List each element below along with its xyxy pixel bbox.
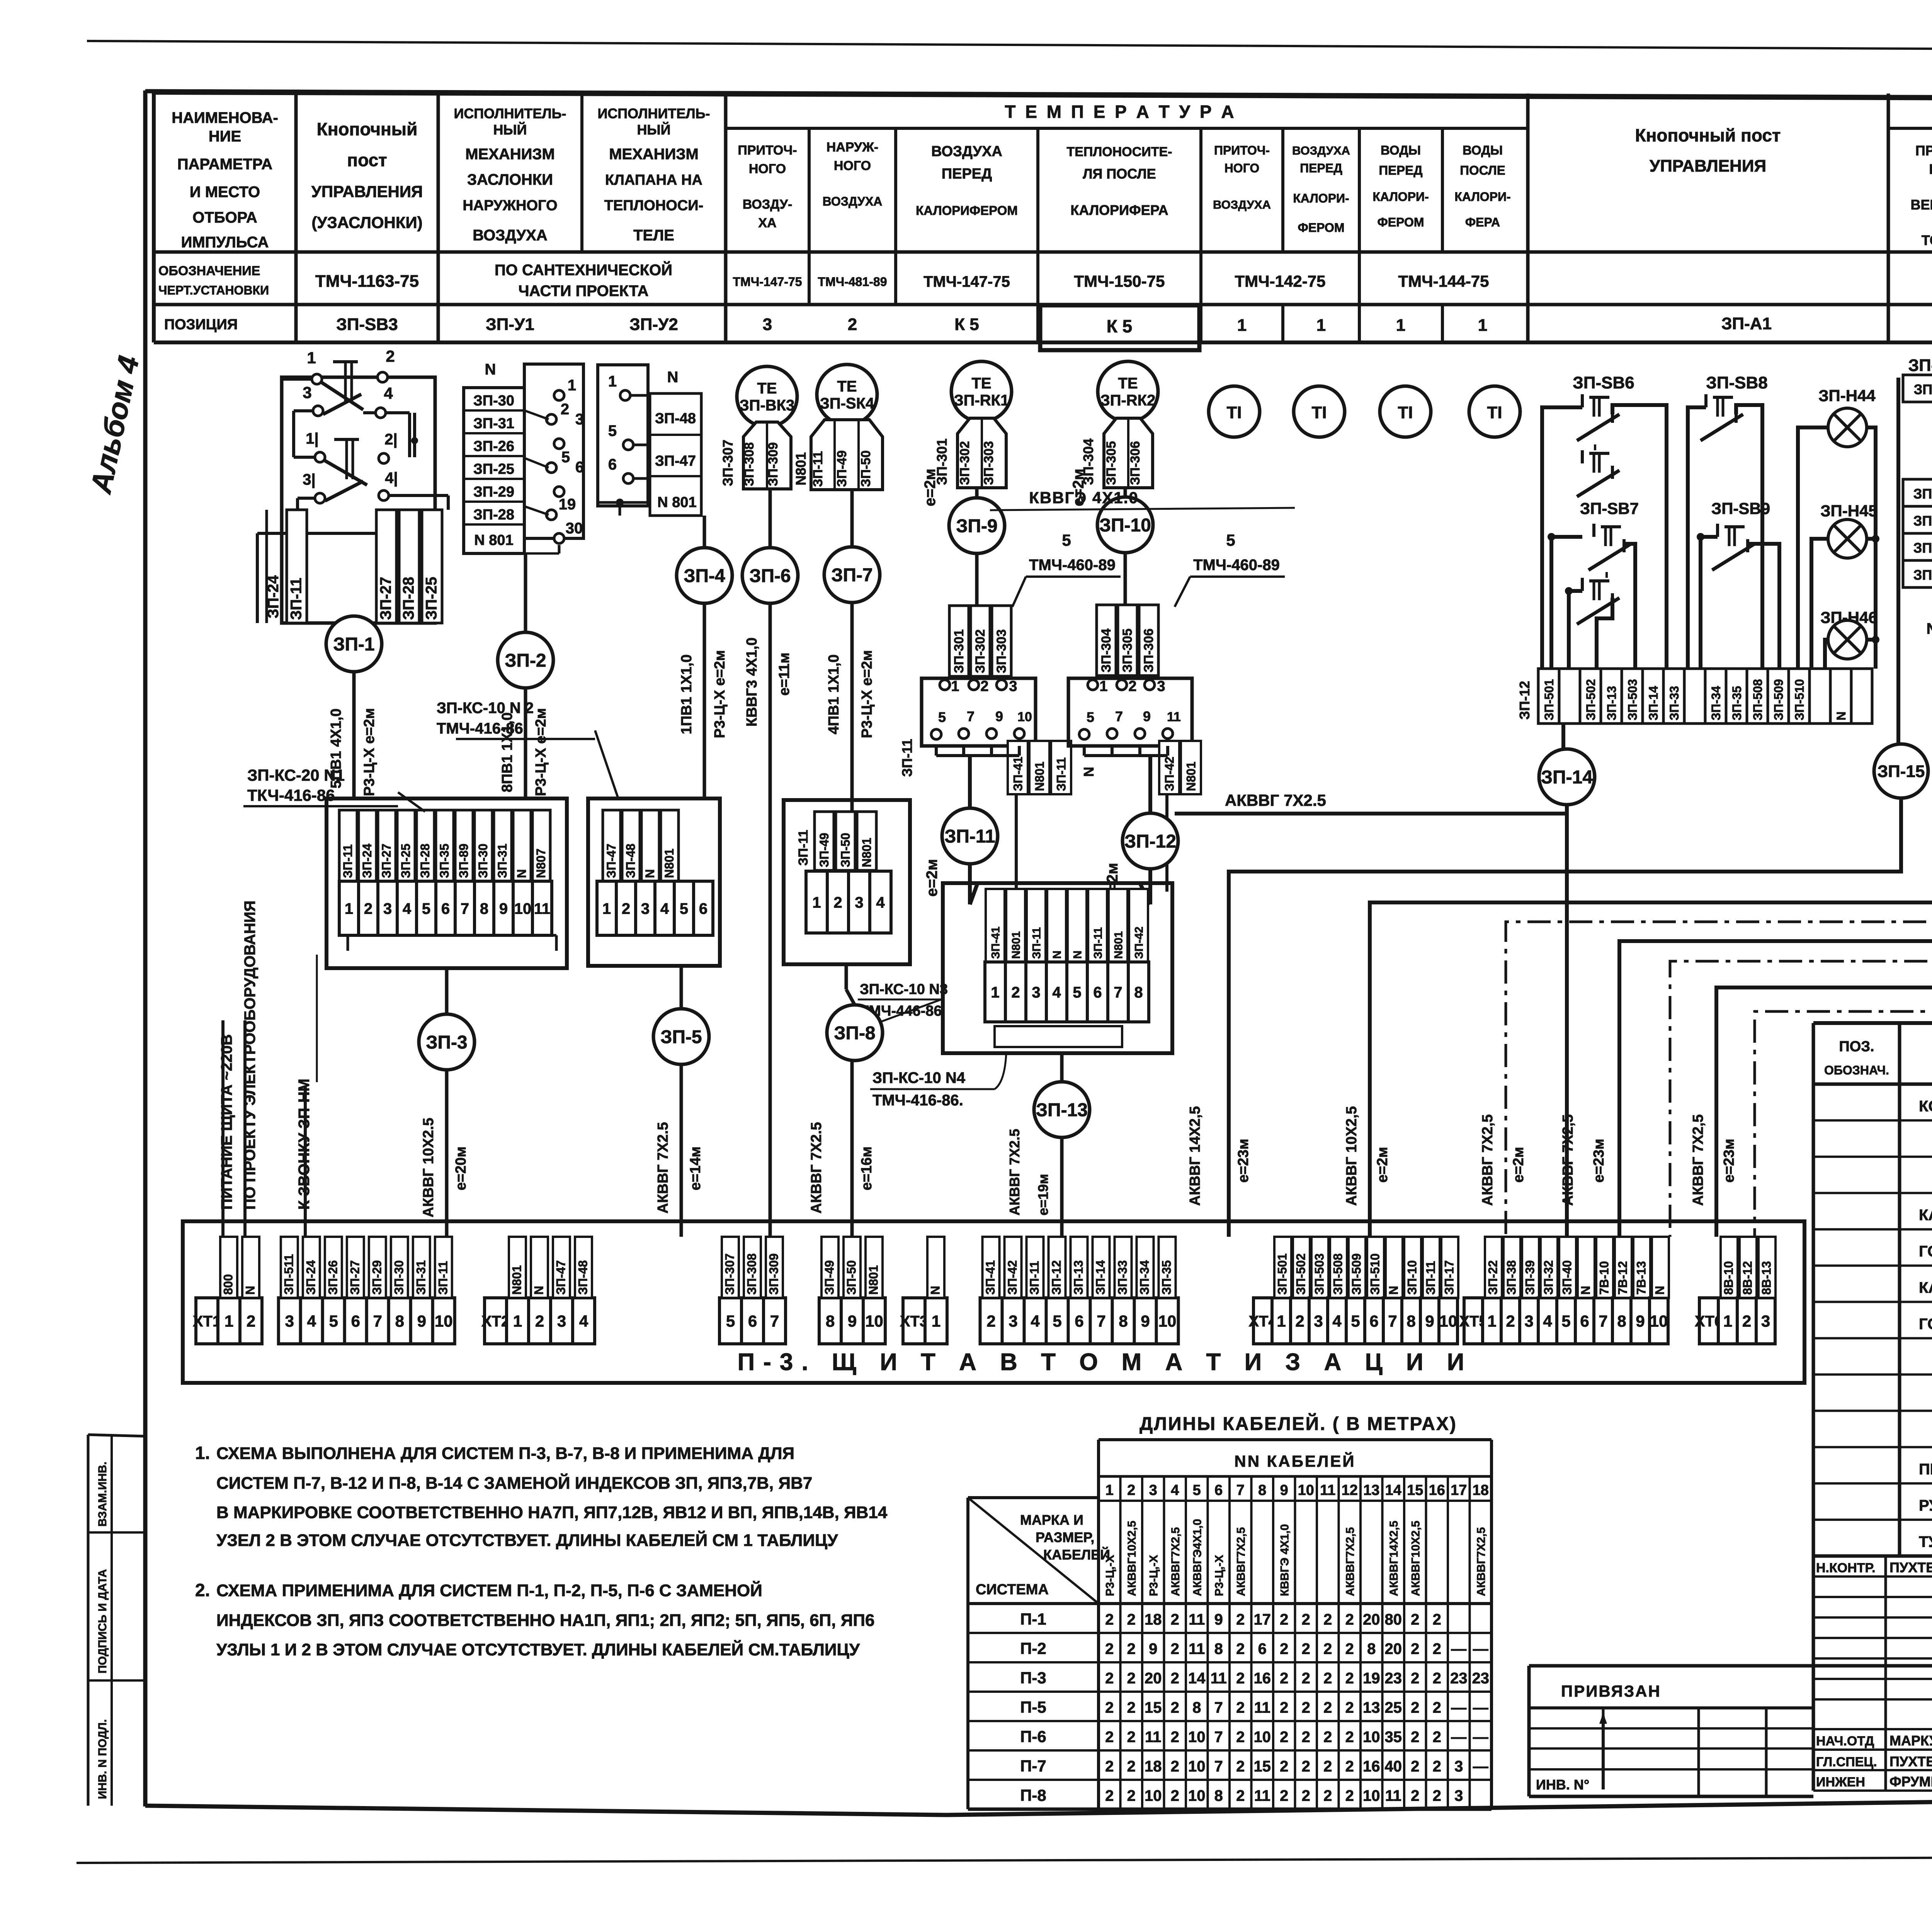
svg-text:2: 2 xyxy=(1742,1312,1751,1330)
svg-text:ВЗАМ.ИНВ.: ВЗАМ.ИНВ. xyxy=(96,1462,109,1527)
svg-text:1: 1 xyxy=(602,900,611,917)
svg-text:Р3-Ц-Х e=2м: Р3-Ц-Х e=2м xyxy=(533,708,549,796)
svg-text:АКВВГЭ4Х1,0: АКВВГЭ4Х1,0 xyxy=(1191,1519,1204,1596)
svg-text:15: 15 xyxy=(1407,1482,1423,1498)
svg-text:3: 3 xyxy=(1761,1312,1770,1330)
svg-text:ТМЧ-147-75: ТМЧ-147-75 xyxy=(923,273,1010,290)
svg-text:ЗП-RК1: ЗП-RК1 xyxy=(954,392,1009,409)
svg-text:ЗП-38: ЗП-38 xyxy=(1913,540,1932,556)
svg-text:2: 2 xyxy=(1171,1758,1179,1775)
КС-10 N4 stub rect xyxy=(995,1026,1122,1047)
svg-text:ВОДЫ: ВОДЫ xyxy=(1463,143,1503,157)
svg-text:1: 1 xyxy=(568,377,576,394)
svg-text:7В-10: 7В-10 xyxy=(1597,1261,1611,1295)
svg-text:2: 2 xyxy=(386,347,395,365)
svg-text:2: 2 xyxy=(1345,1670,1354,1687)
svg-text:e=2м: e=2м xyxy=(922,469,939,506)
svg-text:ЗП-27: ЗП-27 xyxy=(377,577,394,620)
svg-text:13: 13 xyxy=(1363,1482,1379,1498)
svg-text:АКВВГ 10Х2,5: АКВВГ 10Х2,5 xyxy=(1344,1106,1360,1206)
svg-text:N801: N801 xyxy=(793,452,809,485)
svg-text:Р3-Ц,-Х: Р3-Ц,-Х xyxy=(1213,1555,1226,1596)
svg-text:4: 4 xyxy=(1031,1312,1040,1330)
svg-text:ЗП-511: ЗП-511 xyxy=(282,1254,296,1295)
svg-text:ЗП-33: ЗП-33 xyxy=(1667,686,1681,720)
ЗП-SВ3 internal junction wires xyxy=(296,498,299,533)
К5 heavy cell box xyxy=(1040,305,1199,350)
svg-text:11: 11 xyxy=(1211,1670,1227,1687)
wire ЗП-17 down-left staircase xyxy=(1619,657,1932,1237)
svg-text:10: 10 xyxy=(1158,1312,1177,1330)
svg-text:17: 17 xyxy=(1451,1482,1467,1498)
svg-text:ЧАСТИ ПРОЕКТА: ЧАСТИ ПРОЕКТА xyxy=(518,283,648,300)
svg-text:2: 2 xyxy=(1411,1611,1419,1628)
svg-text:3: 3 xyxy=(763,315,772,334)
svg-text:ЗП-ВК3: ЗП-ВК3 xyxy=(740,397,795,414)
svg-text:10: 10 xyxy=(1363,1788,1380,1805)
svg-text:КВВГЭ 4Х1,0: КВВГЭ 4Х1,0 xyxy=(1279,1524,1291,1596)
svg-text:3: 3 xyxy=(303,383,311,402)
tag strip under SB block xyxy=(1538,669,1559,724)
svg-text:16: 16 xyxy=(1363,1758,1380,1775)
svg-text:ЗП-35: ЗП-35 xyxy=(1730,686,1744,720)
svg-text:2: 2 xyxy=(1302,1758,1310,1775)
svg-text:3: 3 xyxy=(1009,1312,1017,1330)
svg-text:1: 1 xyxy=(1396,316,1405,335)
TI instrument circles xyxy=(1209,386,1260,437)
svg-text:4: 4 xyxy=(1171,1482,1179,1498)
svg-text:4|: 4| xyxy=(385,470,398,487)
svg-text:ПОСЛЕ: ПОСЛЕ xyxy=(1460,163,1505,177)
svg-text:КАБЕЛЬ КОНТРОЛЬНЫЙ С МЕДНЫМИ: КАБЕЛЬ КОНТРОЛЬНЫЙ С МЕДНЫМИ ЖИЛАМИ xyxy=(1919,1206,1932,1224)
svg-text:СХЕМА ВЫПОЛНЕНА ДЛЯ СИСТЕМ: СХЕМА ВЫПОЛНЕНА ДЛЯ СИСТЕМ П-3, В-7, В-8… xyxy=(216,1444,794,1463)
svg-text:2: 2 xyxy=(1280,1758,1288,1775)
svg-text:2: 2 xyxy=(1105,1611,1114,1628)
svg-text:N: N xyxy=(643,869,657,878)
svg-text:ГОСТ1508-78*Е: ГОСТ1508-78*Е xyxy=(1919,1243,1932,1260)
svg-text:23: 23 xyxy=(1450,1670,1468,1687)
svg-text:ФЕРОМ: ФЕРОМ xyxy=(1298,221,1344,235)
svg-text:18: 18 xyxy=(1473,1482,1489,1498)
svg-text:НОГО: НОГО xyxy=(834,158,871,173)
svg-text:ЗП-307: ЗП-307 xyxy=(723,1253,737,1295)
svg-text:ЗП-5: ЗП-5 xyxy=(660,1027,702,1047)
svg-text:ЗП-309: ЗП-309 xyxy=(767,1253,781,1295)
wire ЗП-18 staircase xyxy=(1716,657,1932,1237)
svg-text:4: 4 xyxy=(307,1312,316,1330)
svg-text:ЗП-25: ЗП-25 xyxy=(423,577,440,620)
svg-text:ЗП-50: ЗП-50 xyxy=(838,833,852,867)
svg-text:—: — xyxy=(1473,1699,1488,1716)
tag cell ЗП-28 xyxy=(399,510,419,623)
svg-text:6: 6 xyxy=(1580,1312,1589,1330)
svg-text:ЗП-14: ЗП-14 xyxy=(1541,767,1593,788)
switch ЗП-SВ9 contact xyxy=(1716,524,1719,537)
svg-text:e=2м: e=2м xyxy=(923,859,940,897)
svg-text:2: 2 xyxy=(1171,1670,1179,1687)
svg-text:ЗП-308: ЗП-308 xyxy=(745,1253,759,1295)
svg-text:2: 2 xyxy=(561,401,569,418)
svg-text:ЗП-47: ЗП-47 xyxy=(554,1260,568,1295)
svg-text:В МАРКИРОВКЕ СООТВЕТСТВЕННО Н: В МАРКИРОВКЕ СООТВЕТСТВЕННО НА7П, ЯП7,12… xyxy=(216,1503,888,1522)
svg-text:НЫЙ: НЫЙ xyxy=(637,121,670,138)
svg-text:К 5: К 5 xyxy=(954,315,979,334)
svg-text:ЗП-10: ЗП-10 xyxy=(1908,356,1932,375)
svg-text:Р3-Ц-Х e=2м: Р3-Ц-Х e=2м xyxy=(712,650,728,738)
svg-text:1ПВ1 1Х1,0: 1ПВ1 1Х1,0 xyxy=(679,654,695,734)
svg-text:2: 2 xyxy=(1345,1788,1354,1805)
svg-text:ПЕРЕД: ПЕРЕД xyxy=(1300,161,1342,175)
svg-text:e=2м: e=2м xyxy=(1374,1147,1391,1183)
svg-text:8: 8 xyxy=(395,1312,404,1330)
svg-text:НЫМ: НЫМ xyxy=(1929,161,1932,177)
svg-text:7: 7 xyxy=(1599,1312,1607,1330)
svg-text:3: 3 xyxy=(855,894,863,911)
svg-text:2: 2 xyxy=(1323,1641,1332,1658)
wire ЗП-5 stem xyxy=(680,966,683,1010)
svg-text:11: 11 xyxy=(1189,1641,1205,1658)
svg-text:1: 1 xyxy=(345,900,353,917)
svg-text:N: N xyxy=(1081,767,1097,777)
svg-text:9: 9 xyxy=(1214,1611,1223,1628)
svg-text:7: 7 xyxy=(1214,1729,1223,1746)
junction box B pins xyxy=(1068,678,1192,746)
svg-text:ЗП-41: ЗП-41 xyxy=(1011,757,1025,791)
svg-text:ЗП-501: ЗП-501 xyxy=(1542,679,1556,720)
svg-text:ЗП-30: ЗП-30 xyxy=(476,844,490,878)
svg-text:1: 1 xyxy=(812,894,821,911)
svg-text:ОТБОРА: ОТБОРА xyxy=(192,209,257,226)
svg-text:НАИМЕНОВА-: НАИМЕНОВА- xyxy=(172,109,278,126)
circle node ЗП-15 xyxy=(1874,744,1928,798)
svg-text:ЗП-КС-20 N1: ЗП-КС-20 N1 xyxy=(247,766,345,784)
svg-text:ЗП-33: ЗП-33 xyxy=(1116,1260,1129,1295)
svg-text:ЗП-11: ЗП-11 xyxy=(1054,757,1068,791)
svg-text:9: 9 xyxy=(848,1312,857,1330)
svg-text:ТМЧ-1163-75: ТМЧ-1163-75 xyxy=(315,272,419,291)
svg-text:—: — xyxy=(1451,1729,1466,1746)
svg-text:N: N xyxy=(1387,1286,1401,1295)
svg-text:ЗП-31: ЗП-31 xyxy=(473,415,514,432)
svg-text:АКВВГ10Х2,5: АКВВГ10Х2,5 xyxy=(1410,1521,1422,1596)
svg-text:2: 2 xyxy=(1127,1482,1135,1498)
svg-text:ИНВ. N ПОДЛ.: ИНВ. N ПОДЛ. xyxy=(96,1719,109,1799)
svg-text:6: 6 xyxy=(1075,1312,1083,1330)
svg-text:—: — xyxy=(1451,1699,1466,1716)
svg-text:N801: N801 xyxy=(867,1265,881,1295)
svg-text:6: 6 xyxy=(1369,1312,1378,1330)
svg-text:18: 18 xyxy=(1145,1611,1162,1628)
svg-text:АКВВГ 7Х2,5: АКВВГ 7Х2,5 xyxy=(1690,1114,1706,1206)
svg-text:2: 2 xyxy=(1302,1641,1310,1658)
push-button station ЗП-SВ3 outline xyxy=(282,377,435,623)
КС-20 tag cells xyxy=(339,810,357,881)
svg-text:ЗП-39: ЗП-39 xyxy=(1523,1260,1537,1295)
svg-text:ЗП-50: ЗП-50 xyxy=(845,1260,859,1295)
svg-text:ЗП-11: ЗП-11 xyxy=(796,830,811,866)
svg-text:10: 10 xyxy=(1188,1788,1206,1805)
svg-text:10: 10 xyxy=(514,900,532,917)
svg-text:1: 1 xyxy=(224,1312,233,1330)
circle node ЗП-4 xyxy=(677,548,732,603)
svg-text:2: 2 xyxy=(1411,1670,1419,1687)
svg-text:ЗП-305: ЗП-305 xyxy=(1120,628,1135,672)
svg-text:2: 2 xyxy=(1105,1788,1114,1805)
wire ЗП-10 down xyxy=(1124,553,1127,605)
svg-text:30: 30 xyxy=(566,520,583,537)
svg-text:КАЛОРИФЕРА: КАЛОРИФЕРА xyxy=(1070,202,1168,218)
svg-text:5: 5 xyxy=(422,900,430,917)
svg-text:8: 8 xyxy=(480,900,488,917)
terminal group ХТ5 xyxy=(1464,1298,1483,1344)
svg-text:4: 4 xyxy=(1332,1312,1342,1330)
svg-text:15: 15 xyxy=(1145,1699,1162,1716)
junction dot ЗП-У2 xyxy=(616,499,624,506)
svg-text:ОБОЗНАЧЕНИЕ: ОБОЗНАЧЕНИЕ xyxy=(158,264,260,278)
svg-text:N: N xyxy=(485,361,496,378)
tag cells below box A xyxy=(1008,741,1028,794)
svg-text:4ПВ1 1Х1,0: 4ПВ1 1Х1,0 xyxy=(826,654,842,734)
КС-10 N2 tag cells xyxy=(603,810,621,881)
svg-text:2: 2 xyxy=(1323,1699,1332,1716)
tag cell ЗП-11 xyxy=(287,510,307,623)
svg-text:ЗП-11: ЗП-11 xyxy=(811,451,825,487)
svg-text:ЗП-28: ЗП-28 xyxy=(418,844,432,878)
svg-text:N801: N801 xyxy=(860,838,874,868)
svg-text:СХЕМА ПРИМЕНИМА ДЛЯ СИСТЕМ: СХЕМА ПРИМЕНИМА ДЛЯ СИСТЕМ П-1, П-2, П-5… xyxy=(216,1580,762,1600)
svg-text:9: 9 xyxy=(995,708,1003,724)
svg-text:ЗП-SК4: ЗП-SК4 xyxy=(820,395,874,412)
svg-text:ЗП-11: ЗП-11 xyxy=(944,826,995,847)
svg-text:ЗП-302: ЗП-302 xyxy=(973,629,988,673)
svg-text:ЗП-29: ЗП-29 xyxy=(370,1260,384,1295)
terminal group ХТ2 xyxy=(485,1298,507,1344)
svg-text:7: 7 xyxy=(1236,1482,1245,1498)
svg-text:20: 20 xyxy=(1363,1611,1380,1628)
svg-text:ЗП-11: ЗП-11 xyxy=(1092,927,1104,959)
svg-text:11: 11 xyxy=(1145,1729,1161,1746)
svg-text:9: 9 xyxy=(417,1312,426,1330)
svg-text:1: 1 xyxy=(307,349,316,367)
svg-text:АКВВГ 14Х2,5: АКВВГ 14Х2,5 xyxy=(1187,1106,1203,1206)
svg-text:ЗП-26: ЗП-26 xyxy=(473,438,514,455)
drawing frame top edge xyxy=(145,91,1932,99)
svg-text:5: 5 xyxy=(1062,531,1071,549)
wire ЗП-1 down to junction box xyxy=(352,672,356,798)
svg-text:ОБОЗНАЧ.: ОБОЗНАЧ. xyxy=(1824,1063,1889,1077)
dash-dot узел boundary 3 xyxy=(1755,373,1932,1237)
svg-text:ИМПУЛЬСА: ИМПУЛЬСА xyxy=(181,234,269,251)
wire ЗП-7 down to N3 box xyxy=(850,603,854,812)
svg-text:7: 7 xyxy=(1388,1312,1397,1330)
svg-text:2: 2 xyxy=(1171,1729,1179,1746)
TE sensor circle ЗП-RК1 xyxy=(951,361,1012,422)
svg-text:ВОЗДУХА: ВОЗДУХА xyxy=(931,143,1002,160)
svg-text:АКВВГ 7Х2.5: АКВВГ 7Х2.5 xyxy=(808,1122,825,1214)
svg-text:ЗП-22: ЗП-22 xyxy=(1913,486,1932,502)
svg-text:ЗП-4: ЗП-4 xyxy=(684,566,725,586)
svg-text:ЗП-11: ЗП-11 xyxy=(1424,1261,1438,1295)
junction box ЗП-КС-10 N2 xyxy=(588,798,720,966)
svg-text:N801: N801 xyxy=(1112,931,1125,959)
svg-text:ТЕ: ТЕ xyxy=(1118,375,1138,392)
svg-text:1: 1 xyxy=(1723,1312,1732,1330)
svg-text:17: 17 xyxy=(1254,1611,1271,1628)
wire N3 to ЗП-8 xyxy=(845,964,848,989)
svg-text:ЗП-13: ЗП-13 xyxy=(1605,686,1619,720)
circle node ЗП-7 xyxy=(824,547,880,603)
svg-text:2: 2 xyxy=(1171,1788,1179,1805)
title block left signature table xyxy=(1812,1556,1815,1791)
svg-text:2.: 2. xyxy=(195,1580,210,1600)
svg-text:8: 8 xyxy=(1192,1699,1201,1716)
svg-text:КВВГ3 4Х1,0: КВВГ3 4Х1,0 xyxy=(744,637,760,727)
svg-text:9: 9 xyxy=(1141,1312,1150,1330)
svg-text:8: 8 xyxy=(1214,1788,1223,1805)
svg-text:7В-13: 7В-13 xyxy=(1634,1261,1648,1295)
svg-text:2: 2 xyxy=(1433,1670,1441,1687)
svg-text:4: 4 xyxy=(876,894,885,911)
svg-text:6: 6 xyxy=(608,456,617,473)
svg-text:ЗП-11: ЗП-11 xyxy=(899,739,915,777)
svg-text:9: 9 xyxy=(1636,1312,1645,1330)
svg-text:ИНВ. N°: ИНВ. N° xyxy=(1536,1777,1589,1793)
svg-text:ТМЧ-150-75: ТМЧ-150-75 xyxy=(1074,272,1165,290)
svg-text:3: 3 xyxy=(1157,678,1165,695)
svg-text:8: 8 xyxy=(1367,1641,1376,1658)
svg-text:ТМЧ-142-75: ТМЧ-142-75 xyxy=(1235,272,1326,290)
svg-text:ЗП-11: ЗП-11 xyxy=(1914,381,1932,397)
switch ЗП-SВ6 lower contact xyxy=(1581,450,1584,463)
svg-text:ТМЧ-416-86: ТМЧ-416-86 xyxy=(437,720,523,737)
svg-text:5: 5 xyxy=(1073,984,1081,1001)
terminal block ЗП-У2 xyxy=(598,365,648,506)
svg-text:ЗП-8: ЗП-8 xyxy=(834,1023,875,1044)
svg-text:ЗП-29: ЗП-29 xyxy=(473,484,514,500)
feeder wires down to XT1 xyxy=(221,1020,224,1237)
svg-text:2: 2 xyxy=(1127,1699,1136,1716)
svg-text:2: 2 xyxy=(1280,1788,1288,1805)
wire ЗП-15 staircase xyxy=(1229,799,1901,1237)
svg-text:АКВВГ 7Х2,5: АКВВГ 7Х2,5 xyxy=(1480,1114,1496,1206)
svg-text:ПРИВЯЗАН: ПРИВЯЗАН xyxy=(1561,1682,1661,1700)
svg-text:N 801: N 801 xyxy=(657,494,696,511)
svg-text:2: 2 xyxy=(1236,1641,1245,1658)
КС-10 N4 numbered cells xyxy=(985,962,1005,1022)
SB block wiring left loop xyxy=(1542,407,1582,669)
svg-text:АКВВГ 7Х2.5: АКВВГ 7Х2.5 xyxy=(1007,1129,1022,1216)
svg-text:N: N xyxy=(532,1286,546,1295)
svg-text:КАЛОРИ-: КАЛОРИ- xyxy=(1372,190,1429,204)
wire ЗП-8 down xyxy=(850,1061,854,1237)
svg-text:e=19м: e=19м xyxy=(1035,1174,1051,1216)
ПРИВЯЗАН block xyxy=(1529,1664,1932,1668)
svg-text:2: 2 xyxy=(1127,1788,1136,1805)
svg-text:1: 1 xyxy=(1105,1482,1114,1498)
svg-text:ВОЗДУХА: ВОЗДУХА xyxy=(1292,144,1350,157)
svg-text:2|: 2| xyxy=(384,431,397,448)
svg-text:2: 2 xyxy=(980,678,988,695)
svg-text:ТI: ТI xyxy=(1487,403,1502,422)
dashed link SВ6 chain xyxy=(1594,444,1596,450)
svg-text:ЗП-13: ЗП-13 xyxy=(1036,1100,1088,1120)
svg-text:ВОЗДУХА: ВОЗДУХА xyxy=(1213,198,1271,211)
svg-text:ЗП-509: ЗП-509 xyxy=(1350,1253,1364,1295)
svg-text:ДЛИНЫ КАБЕЛЕЙ. ( В МЕТРАХ): ДЛИНЫ КАБЕЛЕЙ. ( В МЕТРАХ) xyxy=(1139,1413,1457,1434)
svg-text:ЛЯ ПОСЛЕ: ЛЯ ПОСЛЕ xyxy=(1083,166,1156,182)
svg-text:2: 2 xyxy=(1128,678,1136,695)
terminal group ХТ6 xyxy=(1699,1298,1718,1344)
wire ЗП-3 down xyxy=(445,1070,449,1237)
svg-text:П-1: П-1 xyxy=(1020,1610,1046,1628)
svg-text:2: 2 xyxy=(1127,1641,1136,1658)
svg-text:2: 2 xyxy=(1433,1758,1441,1775)
svg-text:10: 10 xyxy=(1145,1788,1162,1805)
svg-text:2: 2 xyxy=(1323,1729,1332,1746)
svg-text:ПОЗИЦИЯ: ПОЗИЦИЯ xyxy=(164,317,238,333)
svg-text:2: 2 xyxy=(1236,1699,1245,1716)
svg-text:П-6: П-6 xyxy=(1020,1728,1046,1746)
wire ЗП-9 down xyxy=(975,553,979,606)
dashed link SВ7 chain xyxy=(1605,572,1608,578)
svg-text:ФРУМКЕР: ФРУМКЕР xyxy=(1889,1774,1932,1789)
svg-text:1: 1 xyxy=(1099,678,1107,695)
svg-text:11: 11 xyxy=(1254,1788,1270,1805)
svg-text:ЗП-38: ЗП-38 xyxy=(1505,1260,1519,1295)
svg-text:АКВВГ 10Х2.5: АКВВГ 10Х2.5 xyxy=(420,1118,437,1217)
svg-text:ТЕПЛОНОСИТЕ-: ТЕПЛОНОСИТЕ- xyxy=(1067,145,1172,159)
wire box B tags down to N4 xyxy=(1165,794,1168,892)
svg-text:2: 2 xyxy=(1433,1788,1441,1805)
svg-text:ЗП-35: ЗП-35 xyxy=(437,844,451,878)
svg-text:ЗП-12: ЗП-12 xyxy=(1517,681,1532,720)
svg-text:2: 2 xyxy=(1302,1611,1310,1628)
svg-text:4: 4 xyxy=(384,384,393,402)
svg-text:ЗП-17: ЗП-17 xyxy=(1442,1260,1456,1295)
svg-text:9: 9 xyxy=(499,900,508,917)
svg-text:АКВВГ7Х2,5: АКВВГ7Х2,5 xyxy=(1169,1527,1182,1596)
svg-text:e=2м: e=2м xyxy=(1510,1147,1527,1183)
svg-text:11: 11 xyxy=(1320,1482,1335,1498)
junction box ЗП-КС-10 N4 xyxy=(943,883,1172,1053)
svg-text:П-3: П-3 xyxy=(1020,1669,1046,1687)
svg-text:40: 40 xyxy=(1385,1758,1402,1775)
svg-text:2: 2 xyxy=(1411,1788,1419,1805)
svg-text:ПУХТЕЛЬ: ПУХТЕЛЬ xyxy=(1889,1754,1932,1769)
sheet top trim line xyxy=(87,41,1932,51)
svg-text:N: N xyxy=(929,1286,942,1295)
svg-text:7: 7 xyxy=(1214,1758,1223,1775)
svg-text:П-8: П-8 xyxy=(1020,1786,1046,1805)
svg-text:N: N xyxy=(1653,1286,1667,1295)
svg-text:2: 2 xyxy=(1011,984,1020,1001)
svg-text:ЗП-503: ЗП-503 xyxy=(1313,1253,1327,1295)
svg-text:П-5: П-5 xyxy=(1020,1698,1046,1716)
svg-text:ЗП-89: ЗП-89 xyxy=(457,844,471,878)
terminal group ХТ4 xyxy=(1253,1298,1272,1344)
svg-text:3: 3 xyxy=(285,1312,294,1330)
svg-text:1|: 1| xyxy=(306,430,318,447)
wire ЗП-11 down to box 4 xyxy=(968,864,972,904)
svg-text:ЗП-32: ЗП-32 xyxy=(1542,1260,1556,1295)
svg-text:2: 2 xyxy=(1323,1788,1332,1805)
svg-text:ЗП-15: ЗП-15 xyxy=(1878,762,1925,781)
svg-text:ЗП-SВ8: ЗП-SВ8 xyxy=(1706,373,1767,392)
svg-text:НОГО: НОГО xyxy=(1225,161,1260,175)
svg-text:ЗП-У1: ЗП-У1 xyxy=(486,315,534,334)
svg-text:СИСТЕМА: СИСТЕМА xyxy=(976,1582,1049,1598)
svg-text:ИСПОЛНИТЕЛЬ-: ИСПОЛНИТЕЛЬ- xyxy=(454,106,566,121)
